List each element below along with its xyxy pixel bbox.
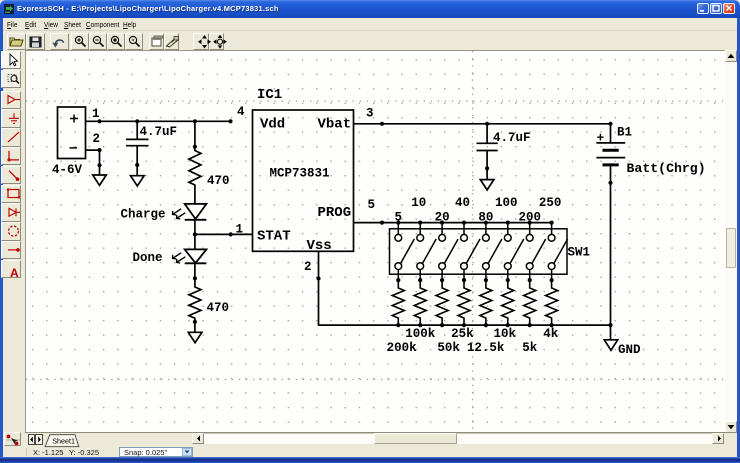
wire pin2 power stub bbox=[86, 150, 100, 165]
sheet tab bbox=[43, 434, 83, 448]
svg-text:50k: 50k bbox=[437, 341, 460, 355]
svg-text:Vss: Vss bbox=[307, 238, 332, 254]
node pin4 bbox=[228, 119, 232, 123]
svg-text:SW1: SW1 bbox=[568, 246, 591, 260]
svg-text:100: 100 bbox=[495, 196, 518, 210]
battery B1 wire down to rail bbox=[610, 165, 612, 340]
svg-text:5: 5 bbox=[368, 198, 376, 212]
nodes PROG row bbox=[396, 221, 400, 225]
port tool bbox=[8, 96, 20, 104]
node C2 top bbox=[485, 122, 489, 126]
window borders bbox=[0, 18, 3, 458]
svg-text:4: 4 bbox=[237, 105, 245, 119]
canvas with schematic bbox=[25, 50, 725, 432]
node R1 branch bbox=[193, 119, 197, 123]
capacitor C1 4.7uF bbox=[126, 121, 149, 165]
svg-text:4-6V: 4-6V bbox=[52, 163, 83, 177]
node pin5 bbox=[380, 221, 384, 225]
resistor R1 470 bbox=[189, 147, 201, 204]
app icon bbox=[4, 4, 14, 14]
ground symbol C2 bbox=[480, 168, 494, 190]
toolbar bbox=[3, 30, 737, 51]
rectangle tool bbox=[7, 189, 20, 199]
left tool palette bbox=[3, 50, 25, 433]
SW1 switch 2 bbox=[417, 223, 436, 281]
svg-text:Vdd: Vdd bbox=[260, 117, 285, 133]
resistor R2 470 bbox=[189, 278, 201, 321]
ground tool bbox=[9, 113, 19, 123]
power + mark bbox=[70, 115, 78, 123]
svg-text:STAT: STAT bbox=[257, 229, 291, 245]
center view icon bbox=[198, 35, 211, 49]
fine grid line horizontal y=379 bbox=[26, 379, 725, 381]
svg-text:MCP73831: MCP73831 bbox=[270, 167, 330, 181]
ground symbol GND bbox=[604, 340, 617, 351]
node rail gnd bbox=[608, 323, 612, 327]
svg-text:2: 2 bbox=[93, 132, 101, 146]
fine grid line vertical x=472 bbox=[472, 51, 474, 432]
svg-text:3: 3 bbox=[366, 107, 374, 121]
LED D1 Charge bbox=[185, 204, 207, 220]
svg-text:5k: 5k bbox=[522, 341, 538, 355]
node C2 bottom bbox=[485, 166, 489, 170]
vertical scrollbar bbox=[725, 50, 737, 433]
save icon bbox=[30, 37, 41, 47]
IC1 MCP73831 box bbox=[253, 110, 354, 251]
zoom box tool bbox=[8, 75, 19, 84]
tab row bbox=[25, 432, 737, 449]
svg-text:12.5k: 12.5k bbox=[467, 341, 505, 355]
zoom prev icon bbox=[129, 36, 139, 46]
zoom out icon bbox=[93, 36, 103, 46]
svg-text:Vbat: Vbat bbox=[318, 117, 352, 133]
pin 3 Vbat wire to battery bbox=[354, 124, 611, 143]
LED D1 arrows bbox=[173, 209, 186, 219]
snap wire tool bbox=[9, 171, 19, 181]
LED D2 arrows bbox=[173, 253, 186, 263]
SW1 switch 8 bbox=[548, 223, 567, 281]
title bar bbox=[0, 0, 740, 18]
status bar bbox=[3, 448, 737, 457]
svg-text:10k: 10k bbox=[493, 327, 516, 341]
svg-text:5: 5 bbox=[395, 210, 403, 224]
ground symbol C1 bbox=[131, 165, 145, 186]
svg-text:200: 200 bbox=[518, 210, 541, 224]
SW1 switch 1 bbox=[395, 223, 414, 281]
snap button icon bbox=[6, 435, 20, 446]
corner tool bbox=[7, 151, 19, 162]
SW1 switch 3 bbox=[439, 223, 458, 281]
close bbox=[723, 3, 735, 14]
switch SW1 poles and resistor bank bbox=[395, 223, 568, 281]
svg-text:10: 10 bbox=[411, 196, 426, 210]
menu bar bbox=[3, 18, 737, 30]
node pin1 power bbox=[97, 119, 101, 123]
ground symbol power bbox=[93, 165, 107, 185]
node B1 bottom bbox=[608, 181, 612, 185]
resistor R4 100k bbox=[414, 280, 426, 325]
horizontal scrollbar bbox=[192, 433, 724, 444]
svg-text:+: + bbox=[597, 131, 605, 146]
svg-text:4k: 4k bbox=[543, 327, 559, 341]
node C1 top bbox=[135, 119, 139, 123]
nodes rail bbox=[396, 323, 400, 327]
svg-text:4.7uF: 4.7uF bbox=[140, 125, 178, 139]
open folder icon bbox=[10, 38, 23, 46]
svg-text:A: A bbox=[10, 266, 19, 280]
node pin1 STAT bbox=[229, 232, 233, 236]
svg-text:PROG: PROG bbox=[318, 205, 352, 221]
svg-text:Batt(Chrg): Batt(Chrg) bbox=[627, 161, 706, 176]
svg-text:470: 470 bbox=[207, 174, 230, 188]
svg-text:250: 250 bbox=[539, 196, 562, 210]
switch SW1 box bbox=[390, 229, 568, 274]
battery B1 plates bbox=[596, 143, 625, 158]
node D2 R2 bbox=[193, 276, 197, 280]
wire D2 to R2 bbox=[194, 263, 196, 278]
minimize bbox=[697, 3, 709, 14]
node R2 gnd bbox=[193, 320, 197, 324]
svg-text:100k: 100k bbox=[405, 327, 436, 341]
SW1 switch 4 bbox=[461, 223, 480, 281]
circle tool bbox=[9, 226, 19, 236]
svg-text:1: 1 bbox=[92, 107, 100, 121]
pin 2 Vss wire down and across bbox=[319, 251, 611, 325]
LED D2 Done bbox=[185, 249, 207, 263]
resistor R10 4k bbox=[546, 280, 558, 325]
maximize bbox=[710, 3, 722, 14]
nodes switch-resistor bbox=[396, 278, 400, 282]
resistor R8 10k bbox=[502, 280, 514, 325]
capacitor C2 4.7uF bbox=[477, 124, 498, 169]
wire resistor branch bbox=[194, 121, 196, 146]
ground symbol R2 bbox=[188, 322, 202, 343]
properties icon bbox=[152, 36, 163, 46]
pin 5 PROG wire bbox=[354, 222, 552, 224]
zoom in icon bbox=[75, 36, 85, 46]
node pin2 power bbox=[97, 148, 101, 152]
svg-text:B1: B1 bbox=[617, 126, 632, 140]
power - mark bbox=[70, 147, 78, 149]
wire STAT bbox=[195, 233, 253, 235]
svg-text:IC1: IC1 bbox=[257, 87, 282, 103]
resistor R9 5k bbox=[524, 280, 536, 325]
wire stretch icon bbox=[167, 36, 179, 47]
svg-text:40: 40 bbox=[455, 196, 470, 210]
node pin2 vss bbox=[316, 276, 320, 280]
resistor R3 200k bbox=[392, 280, 404, 325]
node STAT junction bbox=[193, 232, 197, 236]
diode tool bbox=[9, 208, 20, 216]
schematic text bbox=[52, 87, 706, 357]
svg-text:Done: Done bbox=[133, 251, 163, 265]
node pin3 bbox=[380, 122, 384, 126]
svg-text:470: 470 bbox=[207, 301, 230, 315]
SW1 switch 5 bbox=[483, 223, 502, 281]
line tool bbox=[8, 132, 19, 142]
svg-text:Charge: Charge bbox=[121, 208, 166, 222]
zoom select icon bbox=[111, 36, 121, 46]
svg-text:4.7uF: 4.7uF bbox=[493, 131, 531, 145]
pin tool bbox=[8, 248, 20, 252]
svg-text:Sheet1: Sheet1 bbox=[52, 436, 75, 445]
svg-text:20: 20 bbox=[435, 210, 450, 224]
fine grid line horizontal y=100.6 bbox=[26, 100, 725, 102]
svg-text:80: 80 bbox=[478, 210, 493, 224]
node pin2 gnd bbox=[97, 163, 101, 167]
SW1 switch 6 bbox=[504, 223, 523, 281]
resistor R6 25k bbox=[458, 280, 470, 325]
wire D1 to node STAT bbox=[194, 220, 196, 250]
pan view icon bbox=[213, 34, 227, 48]
pointer tool bbox=[10, 54, 18, 66]
power supply BT 4-6V box bbox=[58, 107, 86, 159]
svg-text:200k: 200k bbox=[387, 341, 418, 355]
svg-text:1: 1 bbox=[236, 223, 244, 237]
resistor R7 12.5k bbox=[480, 280, 492, 325]
node B1 corner bbox=[608, 122, 612, 126]
undo icon bbox=[52, 40, 63, 48]
node R1 top bbox=[193, 145, 197, 149]
svg-text:GND: GND bbox=[618, 343, 641, 357]
svg-text:2: 2 bbox=[304, 260, 312, 274]
SW1 switch 7 bbox=[526, 223, 545, 281]
wire pin1 power to IC Vdd bbox=[86, 120, 231, 122]
snap combo bbox=[119, 447, 193, 457]
node C1 bottom bbox=[135, 163, 139, 167]
resistor R5 50k bbox=[436, 280, 448, 325]
svg-text:25k: 25k bbox=[451, 327, 474, 341]
